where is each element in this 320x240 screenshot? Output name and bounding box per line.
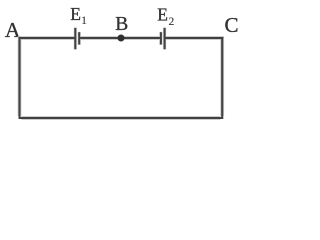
- svg-text:1: 1: [81, 14, 87, 27]
- wire from E1 to E2 through node B: [79, 36, 161, 40]
- battery E2 long plate: [163, 28, 166, 50]
- svg-text:2: 2: [169, 15, 175, 28]
- node B junction dot: [118, 35, 125, 42]
- svg-text:B: B: [115, 14, 128, 35]
- svg-text:E: E: [157, 4, 168, 24]
- wire from E2 to corner C: [165, 36, 224, 40]
- svg-text:C: C: [225, 13, 239, 37]
- wire bottom: [19, 116, 224, 120]
- battery E1 long plate: [72, 28, 76, 50]
- svg-text:E: E: [70, 4, 81, 24]
- wire top-left: corner A to battery E1: [18, 36, 76, 40]
- battery E1 short plate: [78, 32, 81, 45]
- battery E2 short plate: [158, 32, 161, 45]
- wire left side: [18, 37, 22, 119]
- wire right side: [220, 37, 224, 119]
